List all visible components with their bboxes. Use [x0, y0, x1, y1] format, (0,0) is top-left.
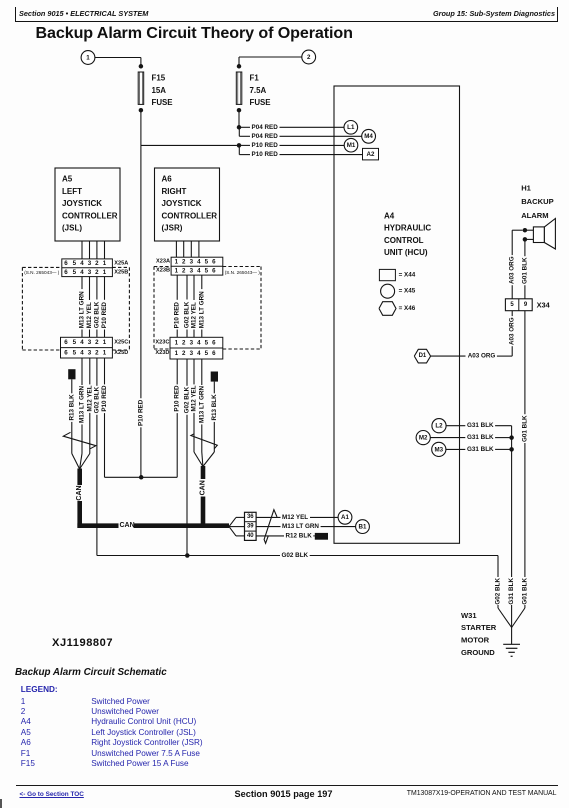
svg-text:1: 1 [86, 54, 90, 61]
svg-text:6: 6 [64, 260, 68, 267]
svg-text:X23C: X23C [155, 340, 169, 346]
HCU pin L1 [344, 121, 358, 135]
hydraulic control unit A4 box [334, 86, 460, 543]
svg-text:G02 BLK: G02 BLK [93, 386, 100, 413]
svg-text:RIGHT: RIGHT [162, 187, 187, 196]
CAN bus (right drop) [201, 466, 206, 479]
wire A6 pin to X23A pin 3 [190, 241, 192, 257]
svg-text:5: 5 [205, 350, 209, 357]
svg-text:15A: 15A [152, 86, 167, 95]
svg-text:1: 1 [175, 339, 179, 346]
svg-text:M12 YEL: M12 YEL [86, 302, 93, 328]
svg-text:4: 4 [80, 339, 84, 346]
svg-text:D1: D1 [419, 353, 427, 359]
svg-text:M13 LT GRN: M13 LT GRN [198, 386, 205, 423]
svg-text:P10 RED: P10 RED [174, 385, 181, 412]
svg-text:UNIT (HCU): UNIT (HCU) [384, 248, 428, 257]
wire M13 LT GRN below X25D [81, 358, 83, 385]
svg-text:L1: L1 [347, 124, 355, 131]
svg-text:A03 ORG: A03 ORG [509, 317, 516, 345]
wire M12 YEL below X23D [193, 359, 195, 384]
HCU connector legend: circle = X45 [381, 284, 395, 298]
svg-text:4: 4 [80, 269, 84, 276]
svg-text:A5: A5 [62, 175, 73, 184]
G02 BLK bus [97, 555, 280, 557]
wire node1 to F15 [95, 57, 141, 59]
svg-text:3: 3 [190, 267, 194, 274]
svg-text:6: 6 [64, 269, 68, 276]
svg-text:3: 3 [88, 339, 92, 346]
shield terminator R13 BLK (right) [211, 372, 218, 382]
svg-text:M12 YEL: M12 YEL [282, 514, 308, 521]
svg-text:CONTROLLER: CONTROLLER [162, 211, 218, 220]
HCU pin M2 [416, 431, 430, 445]
svg-text:G01 BLK: G01 BLK [521, 415, 528, 442]
junction G31 BLK (M2) [509, 435, 513, 440]
svg-text:G02 BLK: G02 BLK [184, 386, 191, 413]
svg-text:M12 YEL: M12 YEL [191, 385, 198, 411]
page title [36, 24, 353, 43]
node: ground convergence [511, 628, 513, 645]
twisted-pair symbol (right) [191, 434, 217, 449]
svg-text:40: 40 [247, 533, 254, 539]
shield terminator R13 BLK (left) [68, 369, 75, 379]
svg-text:F15: F15 [152, 74, 166, 83]
junction above F15 [139, 64, 144, 69]
wire A03 ORG up to X34 [511, 346, 513, 356]
svg-text:M13 LT GRN: M13 LT GRN [282, 523, 319, 530]
wire P10 RED from F15 [141, 144, 237, 146]
svg-text:CONTROLLER: CONTROLLER [62, 211, 118, 220]
svg-text:P10 RED: P10 RED [101, 385, 108, 412]
wire M12 YEL X23B to X23C [193, 275, 195, 300]
svg-text:36: 36 [247, 514, 254, 520]
wire M12 YEL to A1 [256, 516, 280, 518]
CAN cable convergence (left) [72, 454, 80, 470]
svg-text:P10 RED: P10 RED [252, 142, 279, 149]
svg-text:A03 ORG: A03 ORG [468, 353, 496, 360]
footer left link [20, 791, 84, 798]
wire P10 RED X23B to X23C [176, 275, 178, 300]
svg-text:3: 3 [190, 339, 194, 346]
connector X25A/X25B [62, 259, 113, 277]
junction P10 branch [237, 143, 242, 148]
svg-text:2: 2 [95, 269, 99, 276]
svg-text:ALARM: ALARM [521, 211, 548, 220]
junction G02 BLK [185, 553, 190, 558]
svg-text:3: 3 [88, 269, 92, 276]
svg-text:6: 6 [64, 350, 68, 357]
dashed S.N. 265043 box (left, around X25B/X25D) [21, 267, 23, 350]
svg-text:LEFT: LEFT [62, 187, 82, 196]
svg-text:(JSL): (JSL) [62, 224, 82, 233]
wire A6 pin to X23A pin 4 [198, 241, 200, 257]
svg-text:3: 3 [190, 350, 194, 357]
wire R13 BLK (right) [213, 382, 215, 394]
wire G31 BLK from M3 [446, 448, 465, 450]
svg-text:5: 5 [205, 339, 209, 346]
legend [21, 685, 58, 694]
wire A6 pin to X23A pin 1 [175, 241, 177, 257]
svg-text:1: 1 [103, 260, 107, 267]
svg-text:G01 BLK: G01 BLK [521, 578, 528, 605]
junction at alarm - [523, 237, 528, 242]
svg-text:4: 4 [197, 339, 201, 346]
svg-text:3: 3 [88, 260, 92, 267]
svg-text:G31 BLK: G31 BLK [467, 434, 494, 441]
HCU pin D1 (hexagon X46) [414, 349, 430, 363]
svg-text:HYDRAULIC: HYDRAULIC [384, 224, 431, 233]
header right: Group 15 [433, 9, 555, 18]
svg-text:5: 5 [205, 267, 209, 274]
CAN bus (left drop) [77, 469, 82, 486]
wire G31 BLK vertical [511, 426, 513, 577]
svg-text:X34: X34 [537, 300, 551, 309]
svg-text:G02 BLK: G02 BLK [93, 301, 100, 328]
svg-text:B1: B1 [359, 524, 367, 531]
wire M13 LT GRN below X23D [201, 359, 203, 385]
wire M13 LT GRN X25B to X25C [81, 277, 83, 290]
svg-text:G02 BLK: G02 BLK [184, 301, 191, 328]
svg-text:G31 BLK: G31 BLK [467, 422, 494, 429]
wire G01 BLK alarm to X34 [524, 239, 526, 256]
wire F15 down to P10 branch [140, 112, 142, 145]
connector X23A/X23B [171, 257, 223, 275]
svg-text:M12 YEL: M12 YEL [191, 302, 198, 328]
svg-text:G02 BLK: G02 BLK [282, 552, 309, 559]
wire G31 BLK from L2 [446, 425, 465, 427]
svg-text:M3: M3 [434, 446, 443, 453]
svg-text:(S.N. 265043— ): (S.N. 265043— ) [24, 270, 60, 275]
CAN bus horizontal [77, 523, 118, 528]
dashed S.N. 265043 box (right, around X23B/X23D) [153, 267, 155, 350]
page corner tick [0, 799, 2, 808]
wire F1 down [238, 112, 240, 127]
svg-text:6: 6 [212, 267, 216, 274]
junction P04 branch [237, 125, 242, 130]
junction G31 BLK (M3) [509, 447, 513, 452]
backup alarm H1 speaker [533, 227, 544, 243]
header left: Section 9015 ELECTRICAL SYSTEM [19, 9, 148, 18]
svg-text:BACKUP: BACKUP [521, 197, 554, 206]
wire P10 RED main vertical [140, 145, 142, 398]
svg-text:4: 4 [197, 258, 201, 265]
svg-text:CONTROL: CONTROL [384, 236, 424, 245]
svg-text:G02 BLK: G02 BLK [495, 578, 502, 605]
svg-text:H1: H1 [521, 184, 531, 193]
HCU pin A1 [338, 510, 352, 524]
wire P10 RED branch 2 [238, 145, 240, 154]
connector X25C/X25D [61, 337, 113, 358]
svg-text:JOYSTICK: JOYSTICK [162, 199, 202, 208]
shield terminator R12 BLK [315, 533, 328, 540]
wire node2 to F1 [239, 56, 302, 58]
svg-text:1: 1 [103, 339, 107, 346]
svg-text:5: 5 [73, 339, 77, 346]
junction at alarm + [523, 228, 528, 233]
svg-text:A4: A4 [384, 212, 395, 221]
svg-text:1: 1 [175, 267, 179, 274]
HCU pin M4 [362, 129, 376, 143]
svg-text:JOYSTICK: JOYSTICK [62, 199, 102, 208]
svg-text:X23A: X23A [156, 259, 170, 265]
svg-text:1: 1 [175, 350, 179, 357]
junction above F1 [237, 64, 242, 69]
svg-text:P10 RED: P10 RED [252, 151, 279, 158]
svg-text:5: 5 [73, 269, 77, 276]
svg-text:CAN: CAN [200, 480, 207, 495]
svg-text:P04 RED: P04 RED [252, 124, 279, 131]
svg-text:MOTOR: MOTOR [461, 636, 490, 645]
HCU connector legend: hexagon = X46 [379, 302, 396, 316]
svg-text:1: 1 [175, 258, 179, 265]
svg-text:2: 2 [95, 260, 99, 267]
HCU pin M1 [344, 138, 358, 152]
svg-text:W31: W31 [461, 611, 477, 620]
svg-text:6: 6 [212, 350, 216, 357]
wire A5 pin to X25A pin 1 [104, 241, 106, 259]
wire G02 BLK below X25D [96, 358, 98, 386]
fuse F1 [236, 72, 242, 104]
junction P10 RED to joysticks [139, 475, 144, 480]
HCU pin M3 [432, 442, 446, 456]
left joystick controller A5 box [55, 168, 120, 241]
wire P10 RED below X23D [176, 359, 178, 384]
wire P04 RED to L1 [239, 126, 250, 128]
wire P04 RED branch 2 [238, 127, 240, 136]
HCU pin A2 (square X44) [363, 148, 379, 160]
wire R12 BLK [256, 535, 284, 537]
svg-text:= X45: = X45 [399, 288, 416, 295]
svg-text:= X46: = X46 [399, 305, 416, 312]
svg-text:M13 LT GRN: M13 LT GRN [198, 291, 205, 328]
HCU CAN connector pins 36/39/40 [245, 512, 257, 540]
svg-text:R13 BLK: R13 BLK [211, 394, 218, 421]
svg-text:2: 2 [182, 267, 186, 274]
svg-text:7.5A: 7.5A [250, 86, 267, 95]
svg-text:4: 4 [197, 267, 201, 274]
wire G02 BLK down to ground [497, 556, 499, 578]
connector X23C/X23D [170, 337, 223, 359]
svg-text:2: 2 [182, 350, 186, 357]
svg-text:FUSE: FUSE [152, 98, 173, 107]
svg-text:1: 1 [103, 350, 107, 357]
wire P10 RED X25B to X25C [104, 277, 106, 300]
svg-text:A2: A2 [367, 151, 375, 158]
wire M13 LT GRN X23B to X23C [201, 275, 203, 289]
svg-text:M4: M4 [364, 133, 373, 140]
svg-text:F1: F1 [250, 74, 260, 83]
wire A5 pin to X25A pin 3 [89, 241, 91, 259]
node 2 unswitched power [302, 50, 316, 64]
svg-text:3: 3 [88, 350, 92, 357]
svg-text:M12 YEL: M12 YEL [86, 385, 93, 411]
twisted-pair symbol (at HCU CAN pins) [264, 510, 277, 544]
wire P10 RED joystick tie [105, 476, 178, 478]
fuse F15 [138, 72, 144, 104]
node 1 switched power [81, 51, 95, 65]
svg-text:A1: A1 [341, 514, 349, 521]
junction below F1 [237, 108, 242, 113]
wire M12 YEL X25B to X25C [89, 277, 91, 300]
svg-text:4: 4 [80, 350, 84, 357]
svg-text:2: 2 [95, 339, 99, 346]
wire A6 pin to X23A pin 2 [183, 241, 185, 257]
wire G02 BLK X23B to X23C [186, 275, 188, 299]
CAN fan-out to HCU connector [229, 517, 236, 526]
figure number XJ1198807 [52, 637, 113, 649]
svg-text:6: 6 [212, 339, 216, 346]
junction below F15 [139, 108, 144, 113]
wire P10 RED below X25D [104, 358, 106, 385]
wire G31 BLK from M2 [430, 437, 465, 439]
twisted-pair symbol (left) [63, 432, 96, 449]
svg-text:5: 5 [73, 260, 77, 267]
CAN cable convergence (right) [194, 452, 203, 467]
svg-text:X25D: X25D [114, 350, 128, 356]
wire M13 LT GRN to B1 [256, 526, 280, 528]
wire M12 YEL below X25D [89, 358, 91, 385]
wire A5 pin to X25A pin 2 [96, 241, 98, 259]
svg-text:2: 2 [182, 339, 186, 346]
wire G02 BLK below X23D [186, 359, 188, 386]
svg-text:M1: M1 [347, 142, 356, 149]
svg-text:R12 BLK: R12 BLK [286, 532, 313, 539]
svg-text:X25B: X25B [114, 269, 128, 275]
svg-text:P10 RED: P10 RED [101, 302, 108, 329]
right joystick controller A6 box [155, 168, 220, 241]
svg-text:6: 6 [64, 339, 68, 346]
svg-text:2: 2 [307, 54, 311, 61]
footer right [407, 790, 557, 797]
svg-text:4: 4 [80, 260, 84, 267]
connector X34 [505, 299, 532, 311]
wire R13 BLK (left) [71, 379, 73, 393]
wire G01 BLK below X34 [524, 311, 526, 415]
svg-text:G01 BLK: G01 BLK [521, 257, 528, 284]
svg-text:M13 LT GRN: M13 LT GRN [79, 291, 86, 328]
svg-text:X25A: X25A [114, 260, 128, 266]
svg-text:X25C: X25C [114, 340, 128, 346]
footer center [0, 789, 568, 799]
svg-text:3: 3 [190, 258, 194, 265]
svg-text:39: 39 [247, 524, 254, 530]
svg-text:P10 RED: P10 RED [174, 302, 181, 329]
svg-text:P10 RED: P10 RED [138, 399, 145, 426]
svg-text:A03 ORG: A03 ORG [509, 256, 516, 284]
svg-text:5: 5 [205, 258, 209, 265]
svg-text:P04 RED: P04 RED [252, 133, 279, 140]
svg-text:R13 BLK: R13 BLK [68, 394, 75, 421]
svg-text:CAN: CAN [76, 485, 83, 500]
svg-text:G31 BLK: G31 BLK [467, 446, 494, 453]
svg-text:(S.N. 265043— ): (S.N. 265043— ) [225, 270, 261, 275]
HCU pin L2 [432, 419, 446, 433]
svg-text:X23D: X23D [155, 350, 169, 356]
svg-text:STARTER: STARTER [461, 623, 497, 632]
svg-text:= X44: = X44 [399, 272, 416, 279]
svg-text:GROUND: GROUND [461, 648, 495, 657]
svg-text:M2: M2 [419, 435, 428, 442]
HCU pin B1 [356, 520, 370, 534]
svg-text:FUSE: FUSE [250, 98, 271, 107]
svg-text:2: 2 [182, 258, 186, 265]
svg-text:1: 1 [103, 269, 107, 276]
svg-text:(JSR): (JSR) [162, 224, 183, 233]
wire A03 ORG from D1 [431, 355, 466, 357]
wire A03 ORG X34 to alarm [511, 285, 513, 299]
svg-text:2: 2 [95, 350, 99, 357]
caption Backup Alarm Circuit Schematic [15, 667, 167, 678]
wire G02 BLK X25B to X25C [96, 277, 98, 300]
svg-text:G31 BLK: G31 BLK [508, 578, 515, 605]
svg-text:5: 5 [73, 350, 77, 357]
wire A5 pin to X25A pin 4 [81, 241, 83, 259]
svg-text:6: 6 [212, 258, 216, 265]
ground symbol W31 [503, 643, 520, 645]
svg-text:4: 4 [197, 350, 201, 357]
svg-text:X23B: X23B [156, 268, 170, 274]
svg-text:L2: L2 [435, 423, 443, 430]
svg-text:M13 LT GRN: M13 LT GRN [79, 386, 86, 423]
footer rule [16, 785, 558, 786]
page header rule [15, 7, 16, 22]
HCU connector legend: square = X44 [379, 269, 395, 280]
svg-text:A6: A6 [162, 175, 173, 184]
svg-text:CAN: CAN [120, 522, 135, 529]
